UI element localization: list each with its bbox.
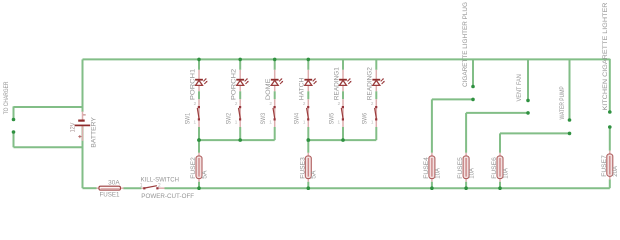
wire FUSE3 column: [307, 140, 309, 153]
svg-text:2: 2: [303, 101, 306, 106]
wire battery column bottom: [82, 126, 84, 188]
svg-text:12V: 12V: [71, 123, 77, 133]
svg-text:PORCH2: PORCH2: [232, 68, 238, 100]
fuse FUSE2 5A: [191, 153, 208, 187]
svg-text:SW1: SW1: [185, 112, 191, 124]
junction dot: [307, 186, 311, 190]
svg-text:2: 2: [194, 101, 197, 106]
svg-text:30A: 30A: [108, 181, 120, 187]
wire FUSE2 column: [198, 140, 200, 153]
switch SW3: [273, 99, 276, 127]
LED DOME: [271, 70, 283, 92]
switch KILL-SWITCH (power cut-off): [141, 186, 164, 190]
junction dot: [464, 186, 468, 190]
wire right column down to kitchen lighter terminal: [609, 59, 611, 111]
wire column READING2 from top rail: [375, 59, 377, 69]
svg-text:2: 2: [235, 101, 238, 106]
wire READING1 LED to SW5: [342, 91, 344, 99]
junction dot: [197, 138, 201, 142]
wire column PORCH1 from top rail: [198, 59, 200, 69]
wire READING2 LED to SW6: [375, 91, 377, 99]
wire SW4 to mid rail: [307, 127, 309, 140]
switch SW6: [375, 99, 378, 127]
node CIGARETTE LIGHTER PLUG lower terminal: [432, 99, 473, 152]
wire mid rail SW1-SW3: [199, 139, 275, 141]
junction dot: [197, 138, 201, 142]
junction dot top rail: [197, 58, 201, 62]
svg-text:1: 1: [140, 183, 143, 189]
svg-text:READING2: READING2: [368, 66, 374, 100]
svg-text:1: 1: [338, 120, 341, 125]
node VENT FAN lower terminal: [466, 113, 528, 153]
svg-text:CIGARETTE LIGHTER PLUG: CIGARETTE LIGHTER PLUG: [463, 2, 469, 87]
svg-text:TO CHARGER: TO CHARGER: [4, 81, 10, 114]
svg-text:2: 2: [371, 101, 374, 106]
wire FUSE7 column bottom: [609, 179, 611, 188]
svg-text:2: 2: [338, 101, 341, 106]
node WATER PUMP upper terminal: [569, 59, 571, 118]
svg-text:10A: 10A: [435, 168, 441, 179]
svg-text:VENT FAN: VENT FAN: [517, 74, 523, 101]
svg-text:FUSE5: FUSE5: [458, 156, 464, 178]
switch SW5: [341, 99, 344, 127]
node KITCHEN CIGARETTE LIGHTER lower terminal: [609, 127, 611, 151]
fuse FUSE1 30A: [97, 186, 124, 190]
svg-text:PORCH1: PORCH1: [190, 68, 196, 100]
svg-text:SW2: SW2: [227, 112, 233, 124]
LED PORCH1: [195, 70, 207, 92]
wire column PORCH2 from top rail: [239, 59, 241, 69]
junction dot: [197, 186, 201, 190]
wire SW5 to mid rail: [342, 127, 344, 140]
svg-text:10A: 10A: [470, 168, 476, 179]
svg-text:FUSE6: FUSE6: [492, 156, 498, 178]
node WATER PUMP lower terminal: [500, 133, 570, 152]
battery 12V: [75, 112, 91, 141]
svg-text:FUSE4: FUSE4: [424, 156, 430, 178]
svg-text:1: 1: [269, 120, 272, 125]
wire column HATCH from top rail: [307, 59, 309, 69]
svg-text:10A: 10A: [503, 168, 509, 179]
fuse FUSE6 10A: [492, 153, 509, 187]
svg-text:FUSE7: FUSE7: [602, 154, 608, 176]
wire HATCH LED to SW4: [307, 91, 309, 99]
wire mid rail SW4-SW6: [308, 139, 376, 141]
junction dot: [498, 186, 502, 190]
junction dot: [307, 138, 311, 142]
svg-text:2: 2: [269, 101, 272, 106]
LED HATCH: [304, 70, 316, 92]
switch SW4: [307, 99, 310, 127]
svg-text:1: 1: [235, 120, 238, 125]
wire FUSE1 to KILL-SWITCH: [123, 187, 141, 189]
wire column DOME from top rail: [274, 59, 276, 69]
wire battery column top: [82, 59, 84, 112]
junction dot: [341, 138, 345, 142]
node KITCHEN CIGARETTE LIGHTER upper terminal: [608, 110, 612, 114]
wire SW3 to mid rail: [274, 127, 276, 140]
fuse FUSE5 10A: [458, 153, 475, 187]
wire bottom return rail segment battery to FUSE1: [83, 187, 97, 189]
junction dot: [430, 186, 434, 190]
junction dot top rail: [273, 58, 277, 62]
fuse FUSE7 20A: [607, 151, 613, 180]
wire top +12V rail: [83, 58, 610, 60]
svg-text:5A: 5A: [312, 170, 318, 178]
wire KILL-SWITCH to FUSE2 node and across bottom: [165, 187, 610, 189]
junction dot top rail: [238, 58, 242, 62]
switch SW1: [197, 99, 200, 127]
junction dot: [307, 138, 311, 142]
svg-text:DOME: DOME: [266, 79, 272, 101]
junction dot top rail: [307, 58, 311, 62]
svg-text:SW6: SW6: [363, 112, 369, 124]
svg-text:FUSE1: FUSE1: [100, 193, 121, 199]
svg-text:BATTERY: BATTERY: [92, 117, 98, 148]
svg-text:5A: 5A: [202, 171, 208, 179]
svg-text:1: 1: [303, 120, 306, 125]
LED PORCH2: [236, 70, 248, 92]
svg-text:READING1: READING1: [334, 66, 340, 100]
fuse FUSE4 10A: [424, 153, 441, 187]
svg-text:SW5: SW5: [329, 112, 335, 124]
switch SW2: [239, 99, 242, 127]
svg-text:POWER-CUT-OFF: POWER-CUT-OFF: [141, 194, 194, 200]
wire SW6 to mid rail: [375, 127, 377, 140]
wire PORCH2 LED to SW2: [239, 91, 241, 99]
svg-text:SW4: SW4: [295, 112, 301, 124]
svg-text:KITCHEN CIGARETTE LIGHTER: KITCHEN CIGARETTE LIGHTER: [603, 2, 609, 111]
wire SW2 to mid rail: [239, 127, 241, 140]
node TO CHARGER lower terminal: [14, 133, 83, 147]
junction dot: [238, 138, 242, 142]
wire SW1 to mid rail: [198, 127, 200, 140]
LED READING1: [339, 70, 351, 92]
svg-text:WATER PUMP: WATER PUMP: [560, 86, 566, 119]
svg-text:SW3: SW3: [261, 112, 267, 124]
svg-text:20A: 20A: [613, 166, 619, 177]
node TO CHARGER upper terminal: [14, 106, 83, 118]
fuse FUSE3 5A: [300, 153, 317, 187]
LED READING2: [372, 70, 384, 92]
wire PORCH1 LED to SW1: [198, 91, 200, 99]
wire column READING1 from top rail: [342, 59, 344, 69]
svg-text:FUSE2: FUSE2: [191, 156, 197, 178]
svg-text:1: 1: [194, 120, 197, 125]
node CIGARETTE LIGHTER PLUG upper terminal: [472, 59, 474, 85]
svg-text:1: 1: [371, 120, 374, 125]
svg-text:2: 2: [158, 183, 161, 189]
wire DOME LED to SW3: [274, 91, 276, 99]
svg-text:HATCH: HATCH: [300, 78, 306, 101]
svg-text:FUSE3: FUSE3: [300, 156, 306, 178]
node VENT FAN upper terminal: [527, 59, 529, 99]
